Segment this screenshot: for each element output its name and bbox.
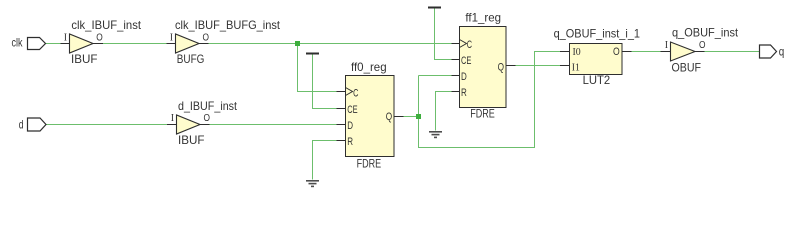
svg-text:R: R (461, 87, 467, 99)
svg-text:clk: clk (12, 36, 24, 50)
svg-text:C: C (353, 87, 358, 99)
svg-text:clk_IBUF_inst: clk_IBUF_inst (71, 18, 141, 32)
svg-text:ff1_reg: ff1_reg (465, 11, 501, 25)
svg-text:d_IBUF_inst: d_IBUF_inst (178, 99, 238, 113)
svg-text:I1: I1 (572, 62, 580, 74)
svg-text:D: D (461, 71, 467, 83)
svg-text:CE: CE (461, 55, 471, 67)
svg-text:LUT2: LUT2 (583, 73, 611, 87)
svg-text:I0: I0 (573, 46, 582, 58)
svg-text:O: O (613, 46, 620, 58)
svg-text:O: O (204, 113, 211, 124)
svg-text:I: I (665, 40, 668, 51)
svg-text:q_OBUF_inst_i_1: q_OBUF_inst_i_1 (554, 27, 641, 41)
svg-text:I: I (170, 32, 173, 43)
svg-text:IBUF: IBUF (178, 133, 205, 147)
svg-text:FDRE: FDRE (357, 157, 382, 171)
svg-text:D: D (347, 120, 353, 132)
svg-text:q_OBUF_inst: q_OBUF_inst (672, 26, 739, 40)
svg-text:FDRE: FDRE (470, 107, 495, 121)
svg-text:OBUF: OBUF (672, 61, 702, 75)
svg-text:CE: CE (347, 104, 357, 116)
svg-text:I: I (64, 32, 67, 43)
svg-text:ff0_reg: ff0_reg (351, 60, 387, 74)
svg-text:O: O (699, 40, 706, 51)
svg-text:BUFG: BUFG (177, 52, 205, 66)
svg-text:q: q (779, 45, 785, 59)
svg-text:O: O (96, 32, 103, 43)
svg-text:C: C (467, 39, 472, 51)
svg-text:clk_IBUF_BUFG_inst: clk_IBUF_BUFG_inst (175, 18, 281, 32)
svg-text:O: O (203, 32, 210, 43)
svg-text:R: R (347, 136, 353, 148)
svg-text:IBUF: IBUF (71, 52, 98, 66)
svg-text:d: d (19, 118, 24, 132)
svg-text:I: I (171, 113, 174, 124)
svg-text:Q: Q (498, 61, 505, 73)
svg-text:Q: Q (386, 111, 393, 123)
